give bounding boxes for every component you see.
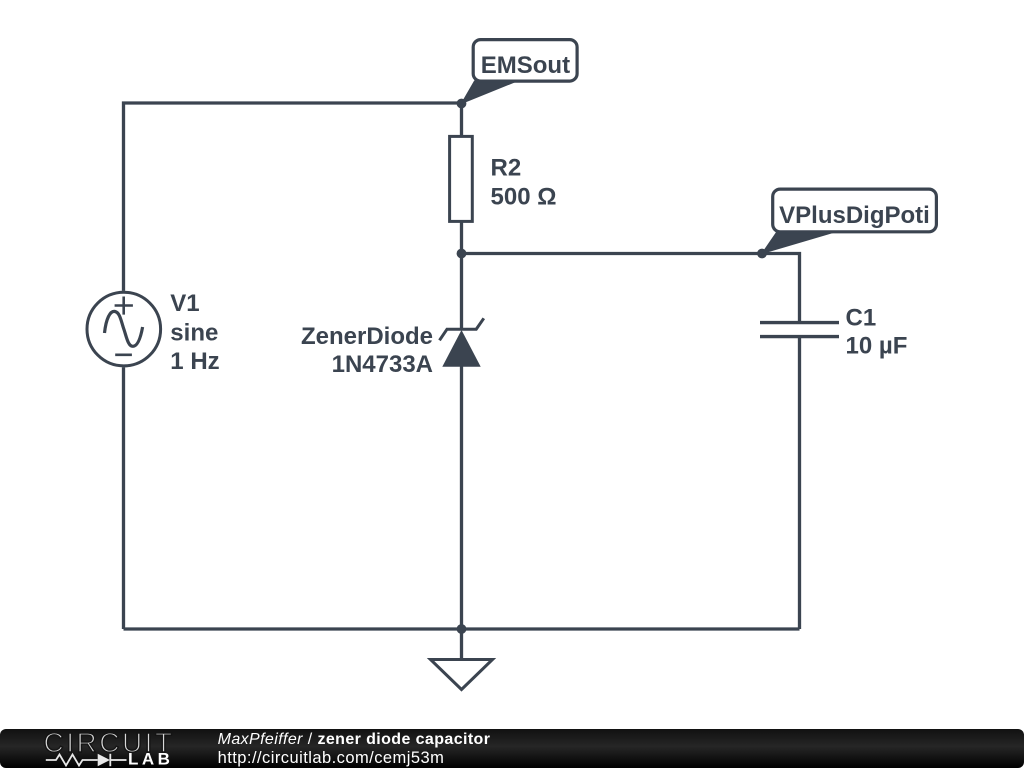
wire top-left from V1 top up and right to node EMSout <box>124 103 462 291</box>
node VPlusDigPoti flag box <box>773 189 937 232</box>
svg-text:VPlusDigPoti: VPlusDigPoti <box>779 202 930 229</box>
wire R2 bottom stub <box>460 222 463 254</box>
svg-text:LAB: LAB <box>128 750 173 768</box>
node ground junction dot <box>457 624 467 634</box>
resistor R2 <box>450 136 473 221</box>
wire bottom rail <box>124 627 800 630</box>
capacitor C1 plates <box>760 323 839 337</box>
svg-text:http://circuitlab.com/cemj53m: http://circuitlab.com/cemj53m <box>218 749 445 767</box>
svg-text:EMSout: EMSout <box>481 52 570 79</box>
wire capacitor bottom stub <box>798 338 801 629</box>
node EMSout junction dot <box>457 99 467 109</box>
ground symbol <box>431 660 493 690</box>
svg-text:MaxPfeiffer / zener diode capa: MaxPfeiffer / zener diode capacitor <box>218 731 491 748</box>
voltage source V1 <box>87 292 161 366</box>
wire V1 bottom down to bottom rail <box>122 367 125 629</box>
zener labels <box>301 323 433 378</box>
node EMSout flag pointer <box>462 81 518 104</box>
svg-text:ZenerDiode: ZenerDiode <box>301 323 433 350</box>
V1 labels <box>170 290 219 375</box>
wire R2 top stub <box>460 103 463 136</box>
R2 labels <box>491 154 557 210</box>
wire mid rail from node to capacitor corner <box>462 254 800 322</box>
svg-text:R2: R2 <box>491 154 522 181</box>
svg-text:500 Ω: 500 Ω <box>491 183 557 210</box>
CircuitLab logo resistor-diode glyph <box>46 754 127 766</box>
node VPlusDigPoti flag pointer <box>762 232 836 254</box>
wire zener top stub <box>460 254 463 331</box>
svg-text:sine: sine <box>170 320 218 347</box>
svg-text:1 Hz: 1 Hz <box>170 348 219 375</box>
wire ground stub <box>460 629 463 660</box>
svg-text:C1: C1 <box>846 305 877 332</box>
node mid junction dot (R2/zener) <box>457 249 467 259</box>
C1 labels <box>846 305 908 360</box>
svg-text:1N4733A: 1N4733A <box>332 351 433 378</box>
wire zener bottom stub <box>460 366 463 629</box>
svg-text:10 µF: 10 µF <box>846 333 908 360</box>
zener diode D1 symbol <box>440 318 484 367</box>
svg-text:V1: V1 <box>170 290 199 317</box>
node VPlusDigPoti junction dot <box>757 249 767 259</box>
node EMSout flag box <box>473 40 577 82</box>
